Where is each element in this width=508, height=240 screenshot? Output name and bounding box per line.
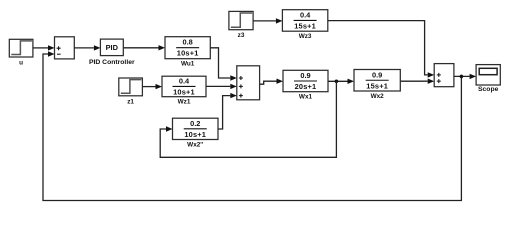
- svg-text:10s+1: 10s+1: [177, 49, 199, 58]
- svg-text:10s+1: 10s+1: [173, 87, 195, 96]
- svg-text:10s+1: 10s+1: [184, 130, 206, 139]
- svg-text:Wz3: Wz3: [299, 33, 312, 40]
- svg-text:Scope: Scope: [478, 86, 499, 93]
- svg-text:15s+1: 15s+1: [294, 21, 316, 30]
- svg-text:15s+1: 15s+1: [366, 81, 388, 90]
- svg-text:0.9: 0.9: [300, 71, 310, 80]
- svg-text:Wx1: Wx1: [299, 94, 313, 101]
- svg-text:PID: PID: [106, 43, 119, 52]
- svg-text:0.9: 0.9: [372, 70, 382, 79]
- svg-text:Wx2'': Wx2'': [187, 142, 204, 149]
- svg-text:20s+1: 20s+1: [295, 82, 317, 91]
- svg-text:0.4: 0.4: [179, 76, 190, 85]
- svg-text:Wz1: Wz1: [178, 99, 191, 106]
- svg-text:Wu1: Wu1: [181, 61, 195, 68]
- svg-text:z1: z1: [127, 98, 134, 105]
- svg-text:0.2: 0.2: [190, 119, 200, 128]
- svg-text:0.8: 0.8: [183, 38, 193, 47]
- svg-text:z3: z3: [238, 32, 245, 39]
- svg-text:0.4: 0.4: [300, 10, 311, 19]
- svg-text:u: u: [19, 60, 23, 67]
- svg-text:Wx2: Wx2: [371, 93, 385, 100]
- svg-text:PID Controller: PID Controller: [89, 59, 135, 66]
